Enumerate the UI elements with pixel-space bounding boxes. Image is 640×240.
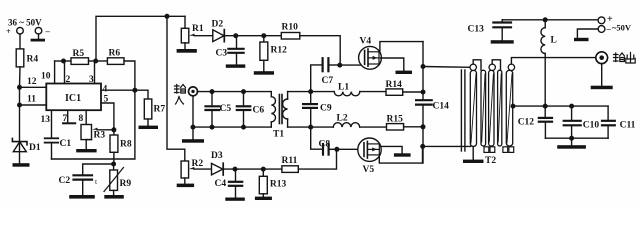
svg-text:C5: C5: [220, 104, 232, 114]
transformer T2 winding strip S4: [498, 70, 502, 146]
node C10 top junction: [569, 104, 574, 109]
resistor R11: [282, 156, 299, 172]
potentiometer R3: [81, 125, 114, 150]
svg-text:C2: C2: [59, 176, 71, 186]
node C3 junction: [233, 33, 238, 38]
capacitor C10: [564, 106, 600, 138]
node R13 junction: [261, 167, 266, 172]
ground (R1): [177, 49, 197, 53]
node V5 gate junction: [334, 147, 339, 152]
ground (output jack): [591, 86, 613, 90]
wire V4 drain to top bridge rail: [380, 42, 423, 51]
inductor L1: [334, 83, 360, 96]
svg-text:IC1: IC1: [65, 93, 81, 104]
node L top junction: [543, 17, 548, 22]
wire pin 8 to R3: [79, 110, 87, 124]
svg-text:C8: C8: [319, 140, 331, 150]
wire +50V top rail: [502, 19, 598, 21]
transformer T2 core: [461, 70, 465, 151]
ground (R3): [76, 149, 96, 152]
capacitor C9: [303, 92, 332, 128]
svg-text:T1: T1: [273, 130, 284, 140]
svg-text:D3: D3: [211, 151, 223, 161]
node V4 gate junction: [337, 63, 342, 68]
ground (C2): [69, 195, 95, 199]
connector output jack: [596, 52, 608, 64]
resistor R7: [135, 90, 165, 125]
wire R15 to bridge node: [404, 126, 423, 128]
svg-text:R3: R3: [94, 131, 106, 141]
svg-text:R5: R5: [73, 49, 85, 59]
ground (C3): [226, 64, 246, 67]
svg-text:R10: R10: [282, 23, 299, 33]
wire V4 source to bar: [381, 58, 404, 71]
transformer T1 primary winding: [271, 92, 275, 128]
svg-text:R8: R8: [120, 140, 132, 150]
resistor R10: [281, 23, 300, 40]
svg-text:C12: C12: [518, 118, 535, 128]
T2 winding3 top terminal circle: [508, 64, 514, 70]
svg-text:7: 7: [63, 114, 68, 124]
svg-text:C3: C3: [216, 49, 228, 59]
transformer T1 secondary winding: [273, 92, 288, 140]
transformer T2 winding strip S3: [489, 70, 494, 146]
svg-text:10: 10: [41, 72, 51, 82]
node L2 row junction: [421, 124, 426, 129]
resistor R5: [64, 49, 89, 64]
wire pin 5 to R3 wiper node: [101, 95, 114, 130]
node pin4/R6/R7 junction: [132, 88, 137, 93]
svg-text:5: 5: [104, 95, 109, 105]
node R5/R6/pin3/rail junction: [93, 59, 98, 64]
svg-text:C4: C4: [215, 179, 227, 189]
wire C1 bottom to feedback line: [51, 143, 53, 159]
wire C7 branch: [311, 65, 322, 92]
label output 输出: [614, 53, 636, 64]
node C10 bottom junction: [569, 136, 574, 141]
node C6 top: [241, 89, 246, 94]
svg-text:R7: R7: [154, 105, 166, 115]
ground (R2): [177, 184, 194, 188]
wire D2 to R10: [224, 35, 281, 37]
node R12 junction: [261, 33, 266, 38]
capacitor C3: [216, 36, 244, 65]
thermistor R9: [95, 164, 131, 195]
svg-text:8: 8: [79, 114, 84, 124]
wire V5 drain to bottom bridge rail: [379, 146, 422, 163]
capacitor C5: [206, 92, 232, 128]
svg-text:L1: L1: [338, 83, 349, 93]
node rail/R2-branch junction: [165, 14, 170, 19]
wire branch down to R2: [167, 16, 185, 161]
svg-text:R11: R11: [282, 156, 298, 166]
wire R4 down left column to D1: [19, 67, 22, 87]
svg-text:C11: C11: [620, 121, 636, 131]
wire output top row: [513, 105, 608, 107]
wire minus terminal to ground: [38, 34, 40, 39]
svg-text:+: +: [6, 26, 11, 36]
T2 hook jumper 2: [492, 60, 500, 70]
node jack stem bottom: [191, 125, 196, 130]
wire pin 4: [101, 85, 135, 95]
svg-text:4: 4: [103, 85, 108, 95]
ground (R7): [139, 126, 159, 129]
capacitor C2: [59, 175, 93, 195]
wire input jack to T1 top: [197, 91, 271, 93]
ground (C4): [225, 198, 245, 201]
wire output jack stem to ground: [601, 64, 603, 86]
transformer T1 core: [279, 95, 282, 124]
svg-text:R13: R13: [270, 180, 287, 190]
svg-text:R15: R15: [387, 115, 404, 125]
node bridge/T2 top junction: [421, 64, 426, 69]
capacitor C11: [602, 106, 636, 138]
node pin5/R3 wiper/R8 junction: [111, 127, 116, 132]
resistor R6: [96, 49, 124, 65]
svg-text:C10: C10: [583, 121, 600, 131]
resistor R4: [16, 49, 38, 67]
IC op-amp/controller IC1: [46, 84, 101, 111]
transformer T2 winding strip S5: [506, 70, 512, 146]
transformer T2 winding strip S2: [481, 70, 486, 146]
resistor R13: [259, 169, 286, 197]
node T2 bottom wire junction: [420, 144, 425, 149]
wire output bottom row: [545, 137, 608, 139]
svg-text:~50V: ~50V: [612, 23, 632, 33]
svg-text:2: 2: [66, 75, 71, 85]
ground (C13): [491, 40, 514, 43]
wire T1 secondary top row to L1: [288, 91, 335, 93]
svg-text:C1: C1: [60, 139, 72, 149]
wire V5 gate: [337, 148, 358, 150]
svg-text:C7: C7: [322, 76, 334, 86]
wire V4 gate: [340, 64, 362, 66]
node L1 row junction: [421, 90, 426, 95]
ground (50V negative): [574, 38, 589, 41]
svg-text:36 ~ 50V: 36 ~ 50V: [8, 18, 42, 28]
ground (T2): [463, 160, 484, 163]
node pin12 junction: [17, 85, 22, 90]
capacitor C6: [237, 92, 265, 128]
svg-text:C9: C9: [320, 104, 332, 114]
node C8 branch junction: [308, 125, 313, 130]
wire + terminal to R4: [19, 34, 21, 49]
capacitor C12: [518, 118, 552, 139]
inductor L: [541, 20, 557, 54]
diode D3: [211, 151, 223, 175]
transformer T2 winding strip S1: [470, 70, 476, 146]
svg-text:R6: R6: [109, 49, 121, 59]
T2 hook jumper 1: [473, 60, 481, 70]
potentiometer R1: [181, 16, 213, 49]
capacitor C1: [45, 138, 72, 149]
svg-text:3: 3: [89, 75, 94, 85]
wire R10 to V4 gate node: [300, 36, 340, 65]
T2 winding1 bottom to ground: [472, 147, 474, 160]
wire bridge output vertical: [422, 42, 424, 164]
node C6 bottom: [241, 125, 246, 130]
node C7 branch junction: [308, 89, 313, 94]
ground (C10): [557, 145, 586, 149]
T2 winding1 top terminal circle: [470, 64, 476, 70]
capacitor C14: [416, 100, 449, 111]
ground bar (V4 source): [396, 71, 413, 74]
wire pin 13 to C1: [41, 110, 52, 138]
svg-text:R2: R2: [192, 159, 204, 169]
label input 输入: [175, 85, 186, 105]
terminal +50V positive: [598, 14, 613, 25]
wire R5 right to node: [89, 60, 96, 62]
ground (D1): [13, 163, 30, 167]
ground (R12): [254, 71, 274, 75]
wire bridge node to T2 winding 1 bottom: [423, 145, 471, 147]
wire bridge node to T2 winding 1 top: [423, 66, 470, 69]
node L bottom junction: [543, 104, 548, 109]
svg-text:R4: R4: [27, 55, 39, 65]
wire T1 secondary bottom row to L2: [288, 126, 334, 128]
svg-text:L: L: [551, 36, 557, 46]
svg-text:–: –: [606, 24, 612, 34]
wire feedback return (pin4 line down and across to C1): [52, 90, 135, 159]
svg-text:12: 12: [27, 77, 37, 87]
terminal - (input supply negative): [35, 26, 50, 36]
pin 7 stub: [62, 110, 76, 124]
ground bar (V5 source): [394, 153, 411, 156]
svg-text:R14: R14: [386, 80, 403, 90]
svg-text:11: 11: [27, 95, 36, 105]
wire C10 ground stem: [571, 138, 573, 145]
capacitor C7: [322, 58, 340, 86]
svg-text:R1: R1: [192, 24, 204, 34]
MOSFET V4: [359, 37, 382, 70]
wire input bottom row: [193, 126, 271, 128]
svg-text:L2: L2: [337, 114, 348, 124]
ground (minus terminal): [31, 39, 45, 42]
ground (R9): [104, 195, 124, 199]
terminal + (input supply positive): [6, 26, 23, 36]
svg-text:–: –: [45, 26, 51, 36]
capacitor C8: [319, 140, 339, 155]
ground (input jack): [182, 139, 204, 143]
wire L bottom to output row: [544, 54, 546, 107]
node T2/output row junction: [511, 104, 516, 109]
MOSFET V5: [358, 138, 381, 175]
svg-text:13: 13: [41, 115, 51, 125]
svg-text:C14: C14: [433, 102, 450, 112]
resistor R8: [110, 130, 132, 164]
potentiometer R2: [181, 159, 211, 184]
node R5 left junction: [61, 59, 66, 64]
svg-text:R9: R9: [120, 179, 132, 189]
wire R11 to V5 gate node: [298, 149, 336, 169]
T2 hook jumper 3 / wire to output jack: [511, 58, 595, 65]
svg-text:V5: V5: [363, 165, 375, 175]
wire L1 to R14: [360, 91, 386, 93]
resistor R15: [387, 115, 404, 131]
wire negative terminal to ground: [577, 29, 598, 38]
wire pin 10: [41, 61, 63, 84]
svg-text:T2: T2: [485, 156, 496, 166]
connector input jack: [189, 87, 198, 96]
wire pin 12: [20, 77, 47, 87]
capacitor C13: [468, 20, 512, 40]
wire R6 right to feedback vertical: [124, 61, 135, 90]
wire L2 to R15: [360, 126, 387, 128]
wire D3 to R11: [223, 168, 282, 170]
wire R14 to bridge node: [403, 91, 423, 93]
ground (R13): [255, 197, 272, 200]
svg-text:D2: D2: [212, 20, 224, 30]
svg-text:D1: D1: [29, 143, 41, 153]
node C4 junction: [233, 167, 238, 172]
svg-text:V4: V4: [360, 37, 372, 47]
svg-text:C13: C13: [468, 25, 485, 35]
wire C8 branch: [311, 127, 323, 149]
wire pin 3: [89, 61, 95, 85]
zener diode D1: [12, 138, 40, 163]
terminal 50V negative: [598, 24, 611, 34]
node C5 top: [210, 89, 215, 94]
svg-text:C6: C6: [253, 106, 265, 116]
wire node to C2: [83, 164, 114, 175]
wire pin 2: [65, 61, 71, 85]
svg-text:R12: R12: [271, 46, 288, 56]
node pin11 junction: [17, 103, 22, 108]
wire input jack stem to ground: [192, 96, 194, 140]
wire C12 top stem: [544, 106, 546, 118]
resistor R14: [386, 80, 403, 95]
node R8/R9/C2 junction: [111, 162, 116, 167]
wire V5 source to bar: [381, 146, 402, 153]
wire top rail: [96, 16, 185, 61]
T2 winding2 top terminal circle: [489, 64, 495, 70]
T2 bottom terminal squares: [484, 147, 514, 153]
diode D2: [212, 20, 225, 42]
node C5 bottom: [210, 125, 215, 130]
inductor L2: [333, 114, 359, 128]
capacitor C4: [215, 169, 243, 197]
wire pin 11: [20, 95, 47, 106]
resistor R12: [260, 36, 287, 71]
